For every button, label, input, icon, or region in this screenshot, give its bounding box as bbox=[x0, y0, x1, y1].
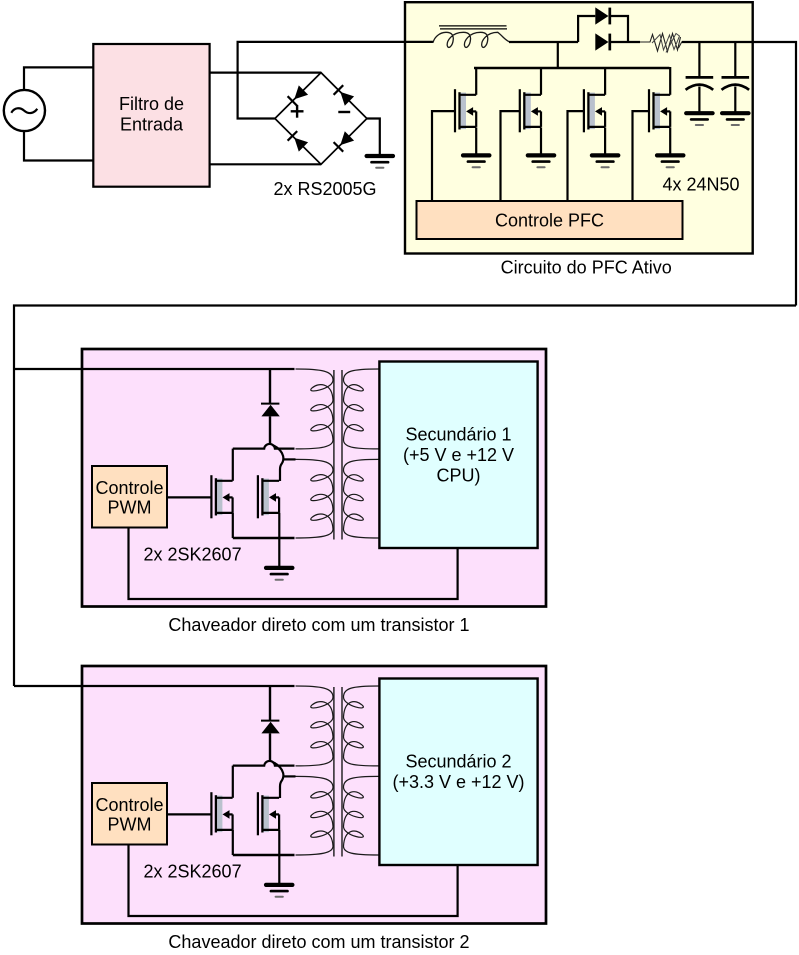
svg-text:Secundário 1: Secundário 1 bbox=[405, 424, 511, 444]
diode D2 (clamp) bbox=[261, 686, 280, 761]
transformer T2 secondary winding top bbox=[344, 686, 379, 766]
AC source V1 bbox=[4, 90, 45, 131]
diode D3 (bridge bottom-left) bbox=[294, 138, 308, 152]
transistor Q2a (2SK2607) bbox=[211, 792, 232, 835]
svg-text:(+3.3 V e +12 V): (+3.3 V e +12 V) bbox=[392, 772, 524, 792]
capacitor C1 bbox=[686, 41, 714, 112]
ground (bridge) bbox=[367, 156, 393, 168]
block: Filtro de Entrada bbox=[93, 44, 209, 187]
wire: bridge - to ground bbox=[367, 119, 380, 155]
wire: Q4 drain to bus bbox=[669, 67, 671, 95]
wire: PWM to gates bbox=[167, 813, 211, 815]
ground (Q1) bbox=[463, 155, 489, 167]
diode D2 (bridge top-right) bbox=[340, 92, 354, 106]
wire: diode to Q2 drain (s-curve hop) bbox=[274, 763, 284, 798]
wire: Q a drain up to primary bbox=[232, 449, 234, 481]
block: Secundario 1 bbox=[379, 362, 537, 549]
wire: feedback bbox=[129, 528, 458, 600]
block: Circuito do PFC Ativo (outline) bbox=[405, 2, 753, 253]
svg-text:Entrada: Entrada bbox=[120, 114, 184, 134]
wire: +rail into block 2 bbox=[14, 685, 295, 687]
wire: Q1 gate to Controle PFC bbox=[432, 111, 455, 201]
wire: PWM to gates bbox=[167, 496, 211, 498]
wire: Q a drain up to primary bbox=[232, 766, 234, 798]
svg-text:CPU): CPU) bbox=[437, 465, 481, 485]
wire: Q2 source to ground bbox=[540, 127, 542, 153]
transistor Q2b (2SK2607) bbox=[258, 792, 279, 835]
transformer T2 secondary winding bottom bbox=[344, 776, 379, 855]
wire: Q2 gate to Controle PFC bbox=[501, 111, 520, 201]
inductor L1 bbox=[433, 32, 510, 47]
wire: Q3 gate to Controle PFC bbox=[568, 111, 584, 201]
block: Controle PFC bbox=[417, 201, 683, 239]
ground (Q2) bbox=[528, 155, 554, 167]
block: Chaveador 1 (outline) bbox=[82, 349, 546, 607]
wire: bridge + output to PFC input bbox=[238, 42, 433, 119]
wire: filter to bridge bottom bbox=[210, 163, 321, 165]
svg-text:Controle: Controle bbox=[95, 478, 163, 498]
wire: Q1 source to ground bbox=[475, 127, 477, 153]
wire: feedback bbox=[129, 845, 458, 917]
label - bbox=[338, 111, 350, 113]
block: Chaveador 2 (outline) bbox=[82, 666, 546, 924]
transformer T1 primary winding top bbox=[296, 369, 334, 449]
wire: filter to bridge top bbox=[210, 71, 321, 73]
wire: Q b source to ground bbox=[278, 513, 280, 566]
wire: MOSFET drain bus bbox=[474, 67, 669, 69]
transistor Q1b (2SK2607) bbox=[258, 475, 279, 518]
wire: node to secondary-primary lower winding bbox=[283, 458, 295, 460]
svg-text:Secundário 2: Secundário 2 bbox=[405, 752, 511, 772]
diode D1 (bridge top-left) bbox=[294, 85, 308, 99]
svg-text:2x 2SK2607: 2x 2SK2607 bbox=[144, 861, 242, 881]
block: Controle PWM 2 bbox=[92, 783, 167, 845]
wire: Q4 source to ground bbox=[669, 127, 671, 153]
svg-text:Filtro de: Filtro de bbox=[119, 94, 184, 114]
wire: source bus bbox=[233, 854, 295, 856]
wire: Q4 gate to Controle PFC bbox=[633, 111, 650, 201]
ground (C2) bbox=[722, 113, 748, 125]
wire: right rail across top bbox=[14, 306, 796, 687]
wire: node to MOSFET drain bus bbox=[557, 42, 559, 68]
svg-text:4x 24N50: 4x 24N50 bbox=[663, 174, 740, 194]
diode D4 (bridge bottom-right) bbox=[340, 131, 354, 145]
block: Secundario 2 bbox=[379, 679, 537, 866]
bridge rectifier 2x RS2005G bbox=[275, 73, 367, 165]
svg-text:Circuito do PFC Ativo: Circuito do PFC Ativo bbox=[501, 258, 672, 278]
transformer T1 secondary winding top bbox=[344, 369, 379, 449]
svg-text:Chaveador direto com um transi: Chaveador direto com um transistor 2 bbox=[168, 932, 469, 952]
ground (chaveador 1) bbox=[266, 568, 292, 580]
svg-text:(+5 V e +12 V: (+5 V e +12 V bbox=[403, 445, 514, 465]
svg-text:2x 2SK2607: 2x 2SK2607 bbox=[144, 544, 242, 564]
transformer T2 core bbox=[334, 687, 342, 857]
wire: primary bottom with hop bbox=[233, 444, 295, 449]
transistor Q1a (2SK2607) bbox=[211, 475, 232, 518]
wire: diode to Q2 drain (s-curve hop) bbox=[274, 446, 284, 481]
wire: PFC output to right rail bbox=[682, 42, 796, 306]
ground (C1) bbox=[686, 113, 712, 125]
transistor Q3 (24N50) bbox=[584, 89, 605, 132]
ground (Q3) bbox=[592, 155, 618, 167]
wire: source bus bbox=[233, 537, 295, 539]
transistor Q2 (24N50) bbox=[520, 89, 541, 132]
boost diode pair D5 D6 bbox=[578, 7, 640, 50]
transistor Q1 (24N50) bbox=[455, 89, 476, 132]
svg-text:2x RS2005G: 2x RS2005G bbox=[274, 179, 377, 199]
transistor Q4 (24N50) bbox=[649, 89, 670, 132]
capacitor C2 bbox=[722, 41, 750, 112]
svg-text:PWM: PWM bbox=[108, 498, 152, 518]
label + bbox=[291, 105, 304, 118]
svg-text:Chaveador direto com um transi: Chaveador direto com um transistor 1 bbox=[168, 615, 469, 635]
resistor R1 bbox=[640, 34, 681, 52]
wire: Q a source down to bus bbox=[232, 513, 234, 538]
wire: +rail into block 1 bbox=[14, 368, 295, 370]
diode D1 (clamp) bbox=[261, 369, 280, 444]
wire: Q3 drain to bus bbox=[604, 67, 606, 95]
ground (Q4) bbox=[657, 155, 683, 167]
transformer T1 primary winding bottom bbox=[296, 459, 334, 538]
wire: node to secondary-primary lower winding bbox=[283, 775, 295, 777]
block: Controle PWM 1 bbox=[92, 466, 167, 528]
svg-text:PWM: PWM bbox=[108, 815, 152, 835]
transformer T1 secondary winding bottom bbox=[344, 459, 379, 538]
wire: Q a source down to bus bbox=[232, 830, 234, 855]
wire: L1 to boost diodes bbox=[509, 41, 578, 43]
inductor L1 core lines bbox=[439, 26, 507, 29]
wire: Q2 drain to bus bbox=[540, 67, 542, 95]
transformer T2 primary winding top bbox=[296, 686, 334, 766]
wire: AC bottom to filter bbox=[24, 131, 93, 160]
wire: Q b source to ground bbox=[278, 830, 280, 883]
svg-text:Controle: Controle bbox=[95, 795, 163, 815]
wire: Q3 source to ground bbox=[604, 127, 606, 153]
transformer T1 core bbox=[334, 370, 342, 540]
svg-text:Controle PFC: Controle PFC bbox=[495, 211, 604, 231]
wire: AC top to filter bbox=[24, 67, 93, 90]
wire: primary bottom with hop bbox=[233, 761, 295, 766]
transformer T2 primary winding bottom bbox=[296, 776, 334, 855]
ground (chaveador 2) bbox=[266, 885, 292, 897]
wire: PFC input bbox=[404, 41, 433, 43]
wire: Q1 drain to bus bbox=[475, 67, 477, 95]
